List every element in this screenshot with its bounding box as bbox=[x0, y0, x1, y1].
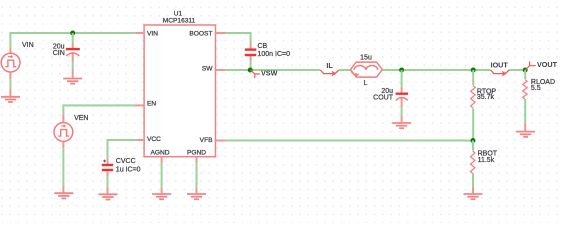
probe VSW tick bbox=[251, 70, 260, 78]
ground below AGND bbox=[152, 194, 171, 199]
svg-text:U1: U1 bbox=[174, 10, 183, 17]
svg-text:VOUT: VOUT bbox=[537, 60, 558, 69]
pin VCC stub bbox=[136, 139, 144, 141]
voltage source VIN leads bbox=[9, 48, 11, 54]
svg-text:PGND: PGND bbox=[187, 150, 206, 157]
resistor RBOT lead top bbox=[472, 141, 474, 151]
wire EN net bbox=[63, 105, 134, 113]
wire VIN source bottom bbox=[9, 79, 11, 89]
ground below PGND bbox=[187, 194, 206, 199]
ground below VIN source bbox=[1, 97, 20, 102]
svg-text:L: L bbox=[364, 80, 368, 87]
capacitor COUT leads bbox=[401, 70, 403, 88]
node junction RTOP bbox=[471, 68, 476, 73]
pin VIN stub bbox=[135, 32, 144, 34]
svg-text:VIN: VIN bbox=[22, 42, 34, 49]
IC U1 MCP16311 box bbox=[144, 25, 215, 157]
resistor RLOAD bbox=[523, 80, 527, 100]
pin SW stub bbox=[216, 69, 226, 71]
node junction VFB/RBOT bbox=[471, 138, 476, 143]
svg-text:CVCC: CVCC bbox=[116, 158, 136, 165]
wire CVCC bottom bbox=[107, 176, 109, 188]
node junction VOUT bbox=[523, 68, 528, 73]
voltage source VEN bbox=[54, 123, 73, 142]
capacitor CVCC leads bbox=[107, 159, 109, 164]
current probe IOUT bbox=[491, 70, 510, 76]
resistor RTOP bbox=[471, 86, 475, 109]
wire VCC to CVCC bbox=[108, 140, 137, 159]
svg-text:11.5k: 11.5k bbox=[478, 157, 495, 164]
probe VOUT tick bbox=[525, 61, 536, 70]
pin AGND stub bbox=[161, 157, 163, 163]
node junction CIN/VIN rail bbox=[70, 31, 75, 36]
svg-text:VEN: VEN bbox=[74, 115, 88, 122]
wire AGND bbox=[161, 163, 163, 189]
svg-text:IOUT: IOUT bbox=[491, 61, 509, 70]
svg-text:35.7k: 35.7k bbox=[477, 94, 495, 101]
capacitor CB leads bbox=[250, 44, 252, 49]
svg-text:AGND: AGND bbox=[151, 150, 170, 157]
svg-text:CB: CB bbox=[258, 43, 268, 50]
inductor L bbox=[350, 62, 382, 77]
svg-text:EN: EN bbox=[147, 101, 156, 108]
ground below CIN bbox=[63, 79, 82, 84]
pin EN stub bbox=[135, 104, 144, 106]
svg-text:1u IC=0: 1u IC=0 bbox=[116, 166, 141, 173]
ground below RLOAD bbox=[516, 132, 535, 137]
svg-text:100n IC=0: 100n IC=0 bbox=[258, 51, 291, 58]
capacitor CIN bbox=[66, 49, 80, 56]
ground below RBOT bbox=[464, 194, 483, 199]
svg-text:IL: IL bbox=[326, 61, 333, 70]
ground below VEN bbox=[54, 193, 73, 198]
capacitor COUT bbox=[396, 94, 408, 101]
ground below COUT bbox=[392, 123, 411, 128]
wire VIN rail top bbox=[10, 32, 135, 34]
wire VFB rail bbox=[225, 140, 473, 142]
node junction SW/CB bbox=[248, 68, 253, 73]
wire IL to L bbox=[339, 69, 350, 71]
svg-text:5.5: 5.5 bbox=[531, 85, 541, 92]
wire VEN bottom bbox=[62, 148, 64, 187]
wire BOOST to CB bbox=[225, 33, 251, 44]
svg-text:BOOST: BOOST bbox=[189, 30, 212, 37]
pin VFB stub bbox=[216, 140, 226, 142]
wire RTOP to VFB rail bbox=[472, 109, 474, 141]
voltage source VIN bbox=[1, 53, 20, 72]
wire VIN source to rail bbox=[9, 32, 11, 48]
wire PGND bbox=[196, 163, 198, 189]
resistor RBOT bbox=[471, 151, 475, 174]
svg-text:VSW: VSW bbox=[261, 68, 278, 77]
wire CIN bottom bbox=[72, 62, 74, 70]
wire COUT bottom bbox=[401, 107, 403, 117]
wire RBOT bottom bbox=[472, 174, 474, 188]
pin PGND stub bbox=[196, 157, 198, 163]
wire SW rail bbox=[225, 69, 320, 71]
wire L to COUT junction and RTOP junction bbox=[383, 69, 491, 71]
svg-text:VFB: VFB bbox=[200, 137, 213, 144]
node junction COUT bbox=[399, 68, 404, 73]
wire IOUT to VOUT corner bbox=[509, 69, 525, 71]
svg-text:CIN: CIN bbox=[53, 50, 65, 57]
svg-text:COUT: COUT bbox=[373, 95, 394, 102]
pin BOOST stub bbox=[216, 32, 226, 34]
svg-text:SW: SW bbox=[202, 65, 213, 72]
svg-text:MCP16311: MCP16311 bbox=[163, 18, 196, 25]
capacitor CVCC bbox=[102, 160, 113, 170]
svg-text:15u: 15u bbox=[360, 54, 372, 61]
wire CB to SW rail bbox=[250, 61, 252, 71]
voltage source VEN leads bbox=[62, 114, 64, 123]
capacitor CB bbox=[245, 50, 256, 55]
resistor RTOP leads bbox=[472, 70, 474, 85]
wire RLOAD bottom bbox=[524, 99, 526, 123]
ground below CVCC bbox=[99, 194, 118, 199]
resistor RLOAD lead top bbox=[524, 70, 526, 79]
current probe IL bbox=[320, 70, 339, 76]
capacitor CIN leads bbox=[72, 33, 74, 44]
svg-text:VIN: VIN bbox=[147, 30, 158, 37]
svg-text:VCC: VCC bbox=[147, 136, 161, 143]
